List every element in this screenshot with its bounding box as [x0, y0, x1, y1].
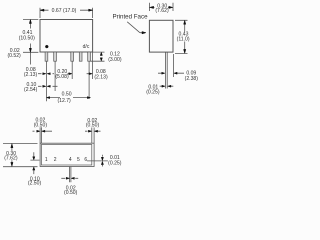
- dim 0.41 arrowheads: [29, 20, 31, 24]
- dim 0.67 arrowheads: [40, 9, 44, 11]
- dim 0.02 right wall arrowheads: [88, 130, 91, 132]
- svg-text:0.67 (17.0): 0.67 (17.0): [52, 8, 77, 14]
- svg-text:Printed Face: Printed Face: [112, 14, 148, 21]
- row A arrow tails: [38, 73, 89, 75]
- dim 0.41 line: [29, 20, 31, 65]
- svg-text:0.50: 0.50: [62, 92, 72, 98]
- svg-text:(2.50): (2.50): [28, 180, 42, 186]
- row A arrowheads: [43, 73, 46, 75]
- dim 0.30 bottom line: [11, 147, 13, 164]
- svg-text:6: 6: [84, 157, 87, 163]
- dim 0.02 pin width arrow tails: [61, 177, 78, 179]
- dim 0.01 side arrow tails: [160, 85, 174, 87]
- dim 0.01 arrow tails: [101, 155, 103, 167]
- svg-text:(0.52): (0.52): [7, 53, 21, 59]
- svg-text:(2.13): (2.13): [24, 72, 38, 78]
- dim 0.02 left wall arrowheads: [37, 130, 40, 132]
- dim 0.30 bottom ticks: [3, 143, 38, 166]
- dim 0.12 arrowheads: [100, 52, 102, 55]
- dim 0.09 extension line: [173, 54, 175, 77]
- svg-text:(2.38): (2.38): [185, 76, 199, 82]
- dim 0.43 ticks: [175, 20, 188, 53]
- dim 0.09 arrow tails: [158, 72, 184, 74]
- dim 0.02 right wall arrow tails: [85, 130, 101, 132]
- side view body: [149, 20, 173, 52]
- svg-text:5: 5: [77, 157, 80, 163]
- svg-text:(5.08): (5.08): [55, 74, 69, 80]
- dim 0.30 side extension lines: [149, 3, 173, 11]
- svg-text:d/c: d/c: [83, 44, 90, 50]
- row B arrowheads: [43, 85, 46, 87]
- pin 1 marker dot: [45, 45, 48, 48]
- dim 0.02 right wall extension lines: [92, 128, 94, 144]
- side pin: [165, 52, 167, 88]
- svg-text:(7.62): (7.62): [155, 8, 169, 14]
- dim 0.30 side arrowheads: [150, 6, 154, 8]
- row B arrow tails: [38, 85, 58, 87]
- front pins: [45, 52, 90, 61]
- svg-text:4: 4: [69, 157, 72, 163]
- dim 0.12 arrow tails: [100, 54, 102, 59]
- svg-text:2: 2: [54, 157, 57, 163]
- dim 0.09 arrowheads: [162, 72, 165, 74]
- svg-text:(2.13): (2.13): [94, 75, 108, 81]
- dim 0.01 pin row arrowheads: [101, 157, 103, 160]
- dim 0.41 ticks: [23, 20, 38, 53]
- printed face leader: [127, 22, 142, 33]
- dim 0.12 extension lines: [91, 52, 105, 61]
- dim 0.02 pin width arrowheads: [66, 177, 69, 179]
- row C dim line: [47, 97, 91, 99]
- dim 0.02 left wall arrow tails: [33, 130, 53, 132]
- svg-text:(3.00): (3.00): [108, 57, 122, 63]
- svg-text:(7.62): (7.62): [4, 156, 18, 162]
- dim 0.67 line: [40, 9, 93, 11]
- front view body: [40, 20, 93, 53]
- svg-text:(0.25): (0.25): [146, 89, 160, 95]
- dim 0.30 side arrow tails: [153, 6, 171, 8]
- dim 0.01 pin row extension line: [87, 160, 108, 162]
- dim 0.43 arrowheads: [184, 20, 186, 24]
- svg-text:(2.54): (2.54): [24, 87, 38, 93]
- front pin extension lines: [47, 52, 93, 101]
- svg-text:(0.50): (0.50): [86, 123, 100, 129]
- dim 0.30 bottom arrowheads: [11, 144, 13, 148]
- dim 0.43 line: [184, 23, 186, 51]
- printed face leader arrowhead: [142, 32, 146, 34]
- svg-text:(0.50): (0.50): [64, 190, 78, 196]
- svg-text:(0.50): (0.50): [34, 123, 48, 129]
- svg-text:(10.50): (10.50): [19, 35, 35, 41]
- row C arrowheads: [47, 97, 50, 99]
- svg-text:(11.0): (11.0): [177, 37, 190, 43]
- dim 0.67 extension lines: [40, 8, 93, 18]
- bottom view outer outline: [40, 143, 94, 166]
- dim 0.01 side arrowheads: [162, 85, 165, 87]
- svg-text:(12.7): (12.7): [57, 98, 71, 104]
- dim 0.10 arrowheads: [33, 157, 35, 160]
- dim 0.02 left wall extension lines: [40, 127, 41, 143]
- bottom view inner outline: [41, 145, 91, 166]
- svg-text:(0.25): (0.25): [108, 160, 122, 166]
- svg-text:1: 1: [45, 157, 48, 163]
- dim 0.02 pin width extension lines: [70, 167, 71, 183]
- dim 0.10 arrow tails + pin row tick: [30, 152, 39, 174]
